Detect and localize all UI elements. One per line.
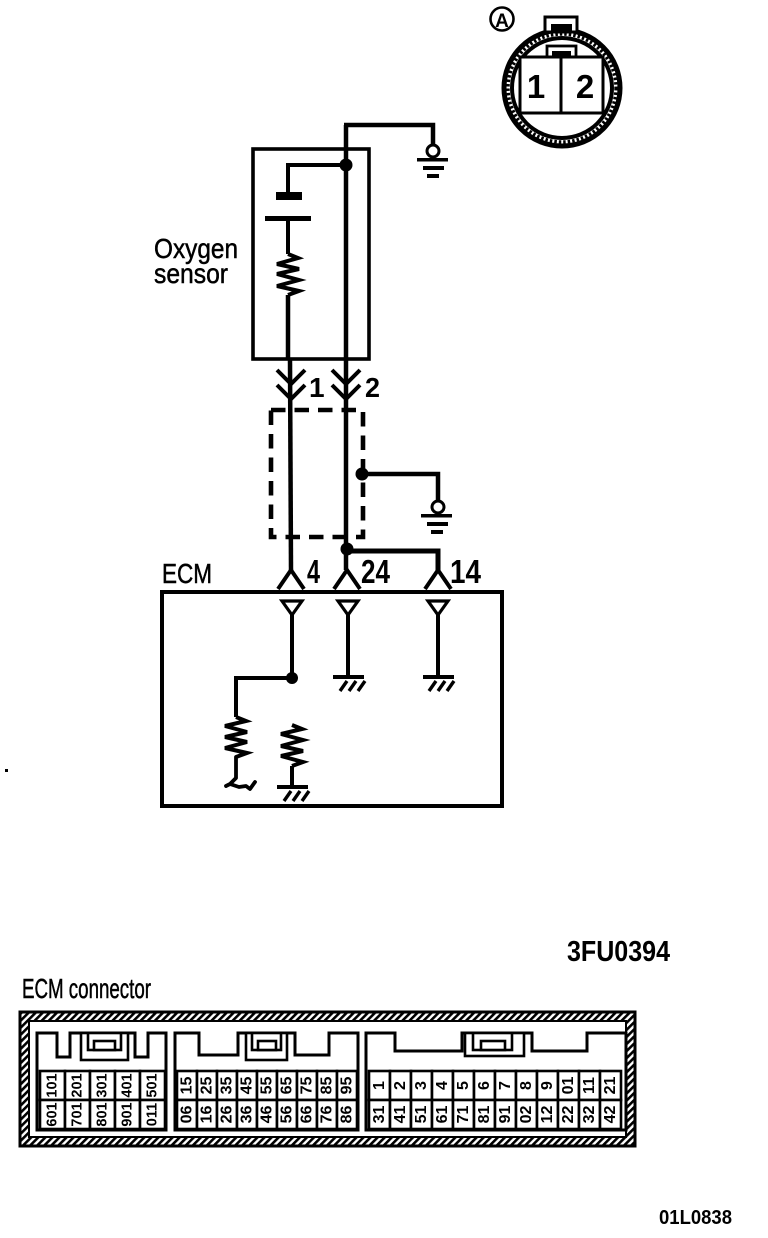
pin cavity 60: [177, 1100, 197, 1129]
svg-text:2: 2: [365, 372, 380, 403]
svg-text:sensor: sensor: [154, 258, 228, 289]
svg-text:1: 1: [309, 372, 325, 403]
svg-text:5: 5: [455, 1081, 472, 1090]
svg-text:4: 4: [307, 553, 320, 590]
pin cavity 58: [317, 1071, 337, 1100]
ground G2 (chassis, mid): [421, 501, 452, 534]
svg-text:601: 601: [45, 1102, 61, 1126]
pin cavity 12: [600, 1071, 621, 1100]
pin cavity 104: [115, 1071, 140, 1100]
connector group right housing: [366, 1033, 626, 1130]
svg-text:56: 56: [279, 1106, 296, 1124]
pin cavity 62: [217, 1100, 237, 1129]
pin cavity 52: [197, 1071, 217, 1100]
shield: dashed box: [271, 410, 363, 537]
svg-text:2: 2: [392, 1081, 409, 1090]
connector A outer ring: [504, 30, 620, 146]
svg-text:86: 86: [339, 1106, 356, 1124]
resistor R1 (inside oxygen sensor): [277, 254, 299, 295]
wire: cell top tap: [288, 165, 346, 192]
pin cavity 17: [453, 1100, 474, 1129]
svg-text:45: 45: [239, 1077, 256, 1095]
label: Oxygen sensor: [154, 233, 238, 289]
battery cell plates inside sensor: [265, 192, 311, 221]
wire: cell to resistor R1: [286, 221, 290, 254]
pin cavity 9: [537, 1071, 558, 1100]
connector arrows on wire 1 (pin 1): [277, 370, 305, 399]
svg-text:61: 61: [434, 1106, 451, 1124]
pin cavity 1: [369, 1071, 390, 1100]
svg-text:55: 55: [259, 1077, 276, 1095]
svg-text:91: 91: [497, 1106, 514, 1124]
svg-text:31: 31: [371, 1106, 388, 1124]
node: junction on wire 2 at shield: [356, 468, 369, 481]
svg-text:35: 35: [219, 1077, 236, 1095]
svg-text:01: 01: [560, 1077, 577, 1095]
pin cavity 23: [579, 1100, 600, 1129]
svg-text:12: 12: [539, 1106, 556, 1124]
svg-text:801: 801: [95, 1102, 111, 1126]
pin cavity 15: [411, 1100, 432, 1129]
svg-text:901: 901: [120, 1102, 136, 1126]
ground G1 (chassis, top right): [417, 145, 448, 178]
pin cavity 20: [516, 1100, 537, 1129]
pin cavity 6: [474, 1071, 495, 1100]
pin cavity 18: [474, 1100, 495, 1129]
pin cavity 19: [495, 1100, 516, 1129]
pin cavity 106: [40, 1100, 65, 1129]
pin cavity 101: [40, 1071, 65, 1100]
pin cavity 57: [297, 1071, 317, 1100]
svg-text:51: 51: [413, 1106, 430, 1124]
wire: pin 24 internal: [346, 615, 350, 676]
svg-text:ECM connector: ECM connector: [22, 973, 151, 1004]
svg-text:24: 24: [361, 553, 391, 590]
pin cavity 14: [390, 1100, 411, 1129]
node: junction on wire 2 inside sensor: [340, 159, 353, 172]
svg-text:9: 9: [539, 1081, 556, 1090]
pin cavity 66: [297, 1100, 317, 1129]
node: junction on wire 2 below shield: [341, 543, 354, 556]
svg-text:701: 701: [70, 1102, 86, 1126]
svg-text:3: 3: [413, 1081, 430, 1090]
pin cavity 59: [337, 1071, 357, 1100]
svg-text:4: 4: [434, 1081, 451, 1090]
connector group left housing: [37, 1033, 166, 1130]
ECM pin 4 input triangle: [282, 601, 302, 615]
pin cavity 105: [140, 1071, 165, 1100]
svg-text:501: 501: [145, 1073, 161, 1097]
svg-text:66: 66: [299, 1106, 316, 1124]
pin cavity 55: [257, 1071, 277, 1100]
pin cavity 107: [65, 1100, 90, 1129]
pin cavity 16: [432, 1100, 453, 1129]
svg-text:32: 32: [581, 1106, 598, 1124]
connector group middle housing: [175, 1033, 358, 1130]
svg-text:02: 02: [518, 1106, 535, 1124]
pin cavity 24: [600, 1100, 621, 1129]
svg-text:81: 81: [476, 1106, 493, 1124]
svg-text:14: 14: [450, 553, 482, 590]
ECM pin 24 socket Y: [334, 570, 360, 589]
pin cavity 51: [177, 1071, 197, 1100]
ECM pin 14 socket Y: [425, 570, 451, 589]
pin cavity 7: [495, 1071, 516, 1100]
pin cavity 102: [65, 1071, 90, 1100]
ECM pin 14 input triangle: [428, 601, 448, 615]
svg-text:11: 11: [581, 1077, 598, 1094]
svg-text:3FU0394: 3FU0394: [567, 936, 670, 968]
ECM pin 4 socket Y: [278, 570, 304, 589]
connector A cavity box: [520, 57, 603, 113]
svg-text:06: 06: [179, 1106, 196, 1124]
wire: branch to R2: [236, 678, 292, 717]
pin cavity 10: [558, 1071, 579, 1100]
pin cavity 110: [140, 1100, 165, 1129]
pin cavity 67: [317, 1100, 337, 1129]
wire: junction to ECM pin 14: [347, 551, 438, 570]
svg-text:75: 75: [299, 1077, 316, 1095]
wire: shield to ground G2: [361, 474, 438, 501]
pin cavity 56: [277, 1071, 297, 1100]
connector A inner latch: [547, 46, 576, 57]
ECM connector frame (hatched): [20, 1012, 635, 1146]
svg-text:85: 85: [319, 1077, 336, 1095]
ground G4 (ECM internal, pin 14): [423, 675, 454, 691]
svg-text:26: 26: [219, 1106, 236, 1124]
ground G5 (ECM internal, pin 4): [277, 785, 309, 801]
pin cavity 3: [411, 1071, 432, 1100]
svg-text:7: 7: [497, 1081, 514, 1090]
wire: R3 to ground: [290, 766, 294, 785]
pin cavity 2: [390, 1071, 411, 1100]
pin cavity 21: [537, 1100, 558, 1129]
svg-text:22: 22: [560, 1106, 577, 1124]
stray dot left margin: [5, 769, 8, 772]
svg-text:21: 21: [602, 1077, 619, 1095]
connector A top tab: [545, 17, 577, 32]
pin cavity 22: [558, 1100, 579, 1129]
svg-text:25: 25: [199, 1077, 216, 1095]
svg-text:301: 301: [95, 1073, 111, 1097]
svg-text:46: 46: [259, 1106, 276, 1124]
wire: sensor output 2 to ground, top run: [344, 125, 433, 148]
oxygen sensor box: [253, 149, 369, 359]
svg-text:8: 8: [518, 1081, 535, 1090]
resistor R2 (ECM pull-up): [225, 717, 247, 757]
pin cavity 13: [369, 1100, 390, 1129]
wire: R2 tail squiggle: [226, 757, 255, 789]
pin cavity 54: [237, 1071, 257, 1100]
svg-text:65: 65: [279, 1077, 296, 1095]
pin cavity 108: [90, 1100, 115, 1129]
wire: pin 14 internal: [436, 615, 440, 676]
pin cavity 103: [90, 1071, 115, 1100]
pin cavity 65: [277, 1100, 297, 1129]
svg-text:71: 71: [455, 1106, 472, 1124]
svg-text:1: 1: [527, 68, 545, 105]
svg-text:76: 76: [319, 1106, 336, 1124]
ECM box: [162, 592, 502, 806]
svg-text:41: 41: [392, 1106, 409, 1124]
pin cavity 64: [257, 1100, 277, 1129]
wire 1: sensor to ECM pin 4: [286, 295, 291, 360]
pin cavity 63: [237, 1100, 257, 1129]
svg-text:95: 95: [339, 1077, 356, 1095]
svg-text:36: 36: [239, 1106, 256, 1124]
connector arrows on wire 2 (pin 2): [332, 370, 360, 399]
pin cavity 61: [197, 1100, 217, 1129]
svg-text:401: 401: [120, 1073, 136, 1097]
svg-text:ECM: ECM: [162, 558, 212, 589]
svg-text:15: 15: [179, 1077, 196, 1095]
ECM pin 24 input triangle: [338, 601, 358, 615]
pin cavity 68: [337, 1100, 357, 1129]
pin cavity 4: [432, 1071, 453, 1100]
pin cavity 109: [115, 1100, 140, 1129]
svg-text:2: 2: [576, 68, 594, 105]
ground G3 (ECM internal, pin 24): [333, 675, 365, 691]
node: junction pin4 internal: [286, 672, 298, 684]
svg-text:201: 201: [70, 1073, 86, 1097]
resistor R3 (ECM, pin 4 to ground): [281, 725, 303, 766]
svg-text:1: 1: [371, 1081, 388, 1090]
svg-text:101: 101: [45, 1073, 61, 1097]
wire 2: sensor to ECM pin 24: [344, 125, 349, 570]
pin cavity 53: [217, 1071, 237, 1100]
svg-text:01L0838: 01L0838: [659, 1206, 732, 1229]
pin cavity 11: [579, 1071, 600, 1100]
svg-text:6: 6: [476, 1081, 493, 1090]
pin cavity 8: [516, 1071, 537, 1100]
wire: pin 4 internal: [290, 615, 294, 678]
connector A callout circle with letter A: [491, 8, 514, 33]
svg-text:42: 42: [602, 1106, 619, 1124]
svg-text:011: 011: [145, 1103, 161, 1126]
pin cavity 5: [453, 1071, 474, 1100]
svg-text:A: A: [495, 11, 509, 32]
svg-text:16: 16: [199, 1106, 216, 1124]
